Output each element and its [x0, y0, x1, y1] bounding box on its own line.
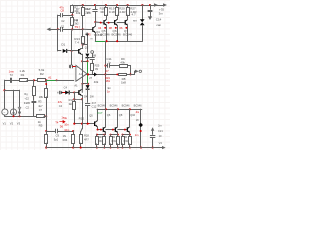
svg-text:R3: R3	[38, 100, 42, 104]
svg-text:A1: A1	[48, 76, 52, 80]
label Q7	[123, 29, 133, 37]
node opamp out-col87	[87, 73, 89, 75]
svg-text:1m: 1m	[135, 133, 139, 137]
wire red seg minus	[73, 66, 76, 68]
svg-text:Rg: Rg	[24, 92, 28, 96]
probe 04	[98, 26, 106, 30]
svg-text:R5: R5	[39, 124, 43, 128]
label red 100p	[64, 128, 69, 132]
node y123-col82	[81, 123, 83, 125]
resistor R18	[105, 5, 108, 16]
node y109-col105	[105, 108, 107, 110]
label 40k	[94, 80, 99, 84]
label V2	[10, 122, 14, 126]
node T9-col71	[71, 28, 73, 30]
wire y80 seg2	[13, 80, 19, 82]
capacitor C14	[148, 5, 153, 20]
label R10	[74, 6, 79, 13]
svg-text:V4: V4	[159, 141, 163, 145]
probe T4 red	[55, 116, 65, 129]
node rail-col46	[45, 147, 47, 149]
svg-text:C7: C7	[39, 108, 43, 112]
diode D8	[136, 109, 143, 147]
capacitor C12	[85, 104, 90, 124]
rail end arrow	[162, 146, 166, 149]
wire y80 to opamp+	[56, 80, 73, 82]
probe 08	[109, 26, 117, 30]
label R12	[79, 116, 85, 120]
node base bus A	[100, 22, 102, 24]
wire bus seg2	[106, 129, 115, 131]
label BC546 r3	[122, 104, 130, 108]
wire col82 down	[82, 99, 84, 123]
label R3	[38, 95, 43, 112]
wire Q1 emitter down	[95, 33, 97, 42]
label V1	[3, 122, 7, 126]
svg-text:V1: V1	[3, 122, 7, 126]
svg-text:C2: C2	[26, 106, 30, 110]
diode D4	[86, 85, 90, 102]
node y92-col74	[73, 91, 75, 93]
node y80-col46	[45, 79, 47, 81]
wire y109.3	[97, 109, 141, 111]
node col87-y83.8	[87, 83, 89, 85]
label C11	[106, 57, 112, 64]
label Q6o	[107, 113, 111, 117]
label V3	[17, 122, 21, 126]
svg-text:En: En	[108, 86, 112, 90]
wire col82-r23 link	[81, 124, 83, 132]
resistor R23	[80, 132, 83, 148]
svg-text:~: ~	[3, 110, 5, 114]
svg-text:C14: C14	[156, 18, 162, 22]
svg-text:C8: C8	[61, 9, 65, 13]
node rail-R27	[127, 4, 129, 6]
wire y99	[74, 99, 82, 101]
node rail-R18	[105, 4, 107, 6]
resistor R4	[45, 80, 48, 116]
capacitor C7	[32, 102, 37, 117]
label 5.6k R2	[39, 68, 45, 76]
svg-text:R32: R32	[124, 140, 129, 143]
emitter pair 2	[110, 134, 120, 149]
probe T9	[75, 25, 80, 29]
svg-text:40k: 40k	[94, 80, 99, 84]
label R15	[95, 63, 100, 70]
node R13 bottom	[82, 43, 84, 46]
svg-text:D1: D1	[61, 43, 65, 47]
svg-text:1ms: 1ms	[9, 69, 15, 73]
node y109-col129	[129, 108, 131, 110]
op-amp U1	[76, 65, 87, 82]
svg-text:4R7: 4R7	[84, 137, 89, 141]
wire output port	[131, 71, 137, 74]
label D3	[58, 86, 68, 108]
label R9 val	[120, 57, 125, 64]
svg-text:D4: D4	[84, 95, 88, 99]
label Q2	[85, 45, 89, 49]
label R16	[69, 98, 74, 106]
svg-text:V2: V2	[10, 122, 14, 126]
node col46-y84	[45, 83, 47, 85]
node col72-y15	[71, 14, 73, 16]
node bus-124	[124, 129, 126, 131]
label red 10n	[64, 123, 69, 127]
node col82-y99	[81, 98, 83, 100]
diode D2	[85, 54, 89, 62]
svg-text:4m: 4m	[136, 110, 140, 114]
wire y80.3 main	[5, 80, 10, 82]
label Q8o	[119, 113, 123, 117]
wire top +35V rail	[72, 5, 163, 7]
svg-text:34dB: 34dB	[24, 101, 30, 105]
transistor Q6 top	[115, 15, 118, 41]
label R31	[112, 136, 117, 143]
svg-text:Q2: Q2	[85, 45, 89, 49]
wire y109 corner right	[140, 109, 143, 111]
node in-cap	[57, 28, 59, 30]
svg-text:181: 181	[106, 79, 111, 83]
svg-text:4u7: 4u7	[86, 7, 91, 11]
node gnd-col46	[44, 115, 47, 117]
label BC546 r2	[110, 104, 118, 108]
node gnd-V2	[13, 115, 15, 117]
label C8 red	[60, 5, 65, 12]
node col4-y90	[3, 89, 5, 91]
port y92.5	[58, 91, 63, 95]
node y80-col35	[33, 79, 35, 81]
svg-text:R1: R1	[21, 73, 25, 77]
label C1	[61, 19, 65, 28]
svg-text:BC546: BC546	[112, 33, 122, 37]
svg-text:C12: C12	[92, 104, 97, 108]
svg-text:4n7: 4n7	[92, 101, 97, 105]
transistor Q2	[79, 45, 83, 62]
current arrow probe	[93, 73, 97, 76]
resistor R10 upper	[71, 5, 74, 15]
wire col46 down2	[46, 116, 48, 131]
wire col105 down	[105, 41, 107, 109]
transistor Q4d	[95, 109, 98, 129]
svg-text:40k: 40k	[120, 60, 125, 64]
label side notes	[24, 92, 30, 110]
node rail-80	[80, 147, 82, 149]
capacitor C10	[90, 53, 95, 59]
label D1	[61, 43, 65, 47]
svg-text:BC546: BC546	[134, 104, 142, 108]
probe plus Q2C	[85, 33, 88, 45]
svg-text:OUT: OUT	[97, 111, 103, 115]
label R1	[19, 69, 25, 77]
node rail-R7	[82, 4, 84, 6]
wire to diode node	[82, 61, 88, 63]
wire R13node right	[83, 45, 88, 53]
node rail-73	[72, 143, 74, 148]
wire green col87	[87, 62, 89, 84]
label C9	[54, 134, 60, 142]
label Q5	[101, 29, 111, 37]
capacitor C11	[108, 63, 120, 67]
diode D1	[63, 49, 71, 53]
svg-text:1k8: 1k8	[121, 81, 126, 85]
label BC546 r1	[98, 104, 106, 108]
label 1ms	[9, 69, 15, 73]
resistor R27	[127, 5, 130, 16]
wire bus Q6-Q7	[117, 22, 125, 24]
label 1mA probe	[73, 18, 79, 22]
node C8-Q1C	[94, 21, 96, 23]
wire y131	[46, 131, 55, 133]
node bus-97	[97, 129, 99, 131]
label R27	[130, 6, 137, 13]
label red 1k	[64, 116, 67, 120]
svg-text:0.18: 0.18	[109, 10, 115, 14]
label R24	[63, 134, 68, 142]
wire opamp out	[87, 74, 106, 76]
label Q5 driver	[89, 114, 93, 118]
svg-text:2m: 2m	[158, 124, 162, 128]
svg-text:sm: sm	[133, 19, 138, 23]
diode D3	[65, 91, 74, 95]
svg-text:can: can	[156, 23, 161, 27]
port input arrow	[47, 28, 58, 32]
svg-text:47u: 47u	[58, 100, 63, 104]
label R18	[100, 7, 106, 14]
svg-text:2W: 2W	[90, 95, 94, 99]
node y123-col87	[87, 123, 89, 125]
wire col19 down	[19, 90, 21, 107]
label Q1	[94, 30, 102, 37]
node cap-col82	[81, 60, 83, 62]
capacitor C9	[56, 129, 74, 133]
power arrow +35V mid	[154, 3, 158, 7]
svg-text:R2: R2	[40, 72, 44, 76]
label Q10o	[130, 113, 135, 117]
voltage source V1	[2, 109, 8, 115]
capacitor C5 input	[11, 78, 12, 83]
label red 4m	[136, 110, 140, 114]
label C8	[86, 7, 91, 15]
label R13	[74, 37, 80, 45]
resistor R1	[20, 79, 28, 82]
resistor R3	[33, 80, 36, 100]
svg-text:C21: C21	[158, 129, 163, 133]
svg-text:C9: C9	[56, 134, 60, 138]
svg-text:BC546: BC546	[98, 104, 106, 108]
transistor Q5 top	[104, 15, 107, 41]
svg-text:10n: 10n	[64, 123, 69, 127]
svg-text:18k: 18k	[39, 95, 44, 99]
wire y123.7	[74, 123, 94, 125]
transistor Q8o	[115, 109, 118, 134]
node rail-col141	[140, 147, 142, 149]
wire V1 bottom	[4, 115, 6, 116]
transistor Q10o	[127, 109, 130, 134]
label C13	[158, 124, 163, 145]
node D1-col71	[71, 50, 73, 52]
node rail-C8	[94, 4, 96, 6]
svg-text:A7: A7	[105, 69, 109, 73]
resistor R11 lower	[71, 15, 74, 29]
svg-text:3D: 3D	[100, 10, 104, 14]
node col105-y74.4	[104, 73, 106, 75]
source V3 arrow	[18, 107, 21, 115]
node y41-Q5	[106, 40, 108, 42]
capacitor C3	[71, 65, 74, 69]
wire bottom rail	[46, 147, 162, 149]
label R30	[98, 136, 103, 143]
svg-text:Q8: Q8	[119, 113, 123, 117]
label D4	[84, 95, 94, 99]
node rail-R20	[116, 4, 118, 6]
node y131-col73	[72, 130, 74, 132]
wire T9 to Q1 base	[83, 29, 93, 40]
label D7	[132, 13, 138, 23]
label R14 2W	[85, 7, 91, 15]
label R32	[124, 136, 129, 143]
svg-text:R12: R12	[79, 116, 85, 120]
label A1 red	[48, 76, 52, 80]
svg-text:BC546: BC546	[110, 104, 118, 108]
wire col4 down	[4, 80, 6, 109]
svg-text:1 M: 1 M	[73, 18, 79, 22]
node out-88	[87, 73, 89, 75]
label D5	[93, 53, 96, 57]
label R7	[76, 7, 81, 15]
node rail-C13	[152, 147, 154, 149]
resistor R5b	[45, 131, 48, 148]
svg-text:R25: R25	[95, 63, 100, 67]
transistor Q1	[93, 26, 96, 33]
svg-text:R28: R28	[84, 134, 89, 138]
svg-text:Q5: Q5	[89, 114, 93, 118]
voltage source V2	[10, 109, 16, 115]
svg-text:7.4: 7.4	[75, 40, 80, 44]
wire C1 col down	[58, 29, 61, 51]
wire T9 right	[72, 29, 82, 31]
transistor Q7 top	[125, 15, 128, 41]
svg-text:R30: R30	[98, 140, 103, 143]
svg-text:C4: C4	[59, 104, 63, 108]
wire y15 cap branch	[58, 13, 73, 29]
label A7 red	[105, 69, 109, 73]
label 27	[89, 76, 92, 80]
wire base bus y22.8	[95, 21, 104, 24]
label Q6	[112, 29, 122, 37]
node y41-Q6	[116, 40, 118, 42]
svg-text:3m: 3m	[159, 11, 164, 15]
capacitor C8	[92, 5, 97, 22]
wire col71 down	[71, 29, 74, 65]
label OUT green	[97, 111, 103, 115]
wire emitter rail y41	[95, 41, 142, 43]
wire y90	[5, 90, 20, 92]
label R20b	[119, 6, 126, 13]
port minus input	[69, 65, 72, 68]
label R11	[74, 18, 79, 25]
wire y65.6 corner	[128, 66, 131, 75]
node y109-col117	[117, 108, 119, 110]
svg-text:V3: V3	[17, 122, 21, 126]
wire col74 seg	[74, 93, 76, 102]
node T9-col83	[82, 28, 84, 30]
label 8n2	[107, 86, 111, 93]
node y123-col74	[73, 123, 75, 125]
label R22	[84, 134, 89, 142]
svg-text:40k: 40k	[76, 11, 81, 15]
svg-text:+22: +22	[24, 97, 29, 101]
svg-text:m: m	[91, 37, 93, 40]
resistor R13	[82, 29, 85, 43]
label +35	[159, 8, 164, 12]
svg-text:R24: R24	[63, 138, 68, 142]
wire bus seg3	[118, 129, 127, 131]
node y80-56	[56, 79, 58, 81]
svg-text:C2: C2	[61, 19, 65, 23]
node col74-y99	[73, 98, 75, 100]
wire bus Q5-Q6	[107, 22, 115, 24]
svg-text:A1: A1	[74, 83, 78, 87]
wire D1 to Q2 base	[72, 50, 79, 52]
resistor R8	[106, 73, 131, 75]
wire col82 through opamp	[81, 61, 83, 92]
svg-text:3k0: 3k0	[69, 102, 74, 106]
wire Q1 collector up	[88, 22, 96, 36]
label BC546 r4	[134, 104, 142, 108]
resistor R22	[72, 131, 75, 144]
node rail-C14	[149, 4, 151, 6]
resistor R16	[73, 102, 76, 124]
svg-text:T9 [: T9 [	[75, 25, 80, 29]
svg-text:R31: R31	[112, 140, 117, 143]
svg-text:T4: T4	[55, 120, 59, 124]
wire V2 bottom	[13, 115, 15, 116]
svg-text:4.7: 4.7	[132, 13, 137, 17]
svg-text:Q6: Q6	[107, 113, 111, 117]
svg-text:4.4R: 4.4R	[119, 10, 126, 14]
wire y80 seg3	[27, 80, 37, 82]
port out arrow	[135, 70, 142, 73]
node D2 bottom	[86, 60, 88, 62]
svg-text:10m: 10m	[64, 128, 69, 132]
wire R7 down	[82, 16, 84, 30]
svg-text:2R: 2R	[99, 136, 102, 139]
svg-text:C4: C4	[64, 86, 68, 90]
svg-text:4u7: 4u7	[38, 104, 43, 108]
resistor R2h	[38, 79, 46, 82]
power arrow +35V end	[163, 3, 167, 7]
label R20a	[109, 6, 115, 13]
probe circle T5	[91, 51, 94, 54]
resistor R6 gnd	[37, 115, 45, 118]
label T2	[10, 73, 14, 77]
wire y80 seg4	[45, 80, 48, 82]
wire y65.6 branch	[106, 65, 107, 67]
wire y92 to Q3	[74, 92, 79, 94]
svg-text:R16: R16	[69, 98, 74, 102]
emitter pair 1	[96, 134, 106, 149]
wire y80 green	[46, 80, 56, 82]
svg-text:5p1: 5p1	[54, 138, 59, 142]
emitter pair 3	[122, 134, 132, 149]
capacitor C1	[58, 27, 73, 32]
label R19 red	[105, 76, 110, 83]
node col46-y131	[45, 130, 47, 132]
wire gnd rail y116.4	[5, 116, 36, 118]
probe 06	[120, 26, 128, 30]
svg-text:2W: 2W	[87, 11, 91, 15]
node rail-D7	[141, 4, 143, 6]
